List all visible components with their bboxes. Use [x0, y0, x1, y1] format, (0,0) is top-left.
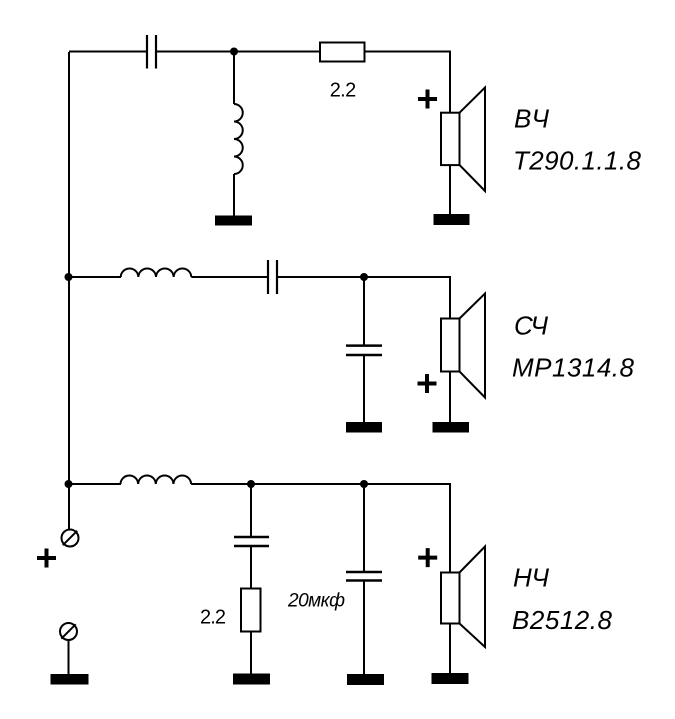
- wire C2 to node C: [278, 276, 364, 278]
- wire R1 to HF speaker: [365, 52, 451, 114]
- plus polarity mark at MF speaker: [418, 374, 437, 393]
- ground under LS2: [433, 422, 470, 433]
- wire node A to resistor R1: [234, 51, 320, 53]
- wire R2 to ground: [250, 632, 252, 675]
- resistor R1: [320, 43, 365, 62]
- wire X2 to ground: [68, 640, 70, 674]
- node F junction dot: [360, 480, 368, 488]
- node D junction dot on bus: [65, 480, 73, 488]
- wire C4 to resistor R2: [250, 547, 252, 589]
- speaker LS2 horn (MF): [460, 294, 486, 398]
- speaker LS1 body (HF): [441, 113, 460, 165]
- capacitor C4 (series with R2, LF shunt leg): [234, 537, 269, 546]
- ground under C5: [347, 674, 384, 685]
- wire node A down to inductor L1: [233, 52, 235, 105]
- capacitor C1 (series, HF): [147, 35, 156, 69]
- wire L2 to capacitor C2: [191, 276, 267, 278]
- speaker LS2 body (MF): [441, 319, 460, 372]
- wire LS2 to ground: [449, 372, 451, 423]
- wire L1 to ground: [233, 174, 235, 216]
- wire top row: corner to capacitor C1: [69, 51, 146, 53]
- wire node C down to capacitor C3: [363, 277, 365, 345]
- wire C5 to ground: [363, 582, 365, 675]
- wire middle row: bus to inductor L2: [69, 276, 121, 278]
- speaker LS3 horn (LF): [460, 547, 486, 648]
- wire LS1 to ground: [449, 165, 451, 215]
- node A junction dot: [230, 48, 238, 56]
- svg-text:2.2: 2.2: [330, 79, 357, 101]
- plus polarity mark at LF speaker: [418, 548, 437, 567]
- wire C3 to ground: [363, 356, 365, 423]
- svg-text:ВЧ: ВЧ: [514, 104, 549, 134]
- capacitor C3 (shunt, MF): [346, 346, 382, 355]
- inductor L3 (series, LF): [121, 475, 192, 484]
- plus polarity mark at input: [37, 549, 56, 568]
- capacitor C2 (series, MF): [268, 260, 277, 294]
- plus polarity mark at HF speaker: [418, 90, 437, 109]
- wire L3 to node E: [191, 483, 251, 485]
- speaker LS1 horn (HF): [460, 88, 486, 192]
- svg-text:2.2: 2.2: [200, 607, 226, 629]
- inductor L1 (vertical, HF shunt): [234, 104, 243, 174]
- input terminal X1: [62, 530, 79, 547]
- wire left input bus vertical: [68, 52, 70, 484]
- wire C1 to node A: [157, 51, 234, 53]
- speaker LS3 body (LF): [441, 573, 460, 624]
- node C junction dot: [360, 273, 368, 281]
- wire bus down to input terminal: [68, 484, 70, 530]
- svg-text:В2512.8: В2512.8: [512, 605, 613, 635]
- wire node E to node F: [251, 483, 364, 485]
- capacitor C5 (shunt 20uF, LF): [346, 572, 382, 581]
- wire node C to MF speaker: [364, 277, 450, 319]
- node B junction dot on bus: [65, 273, 73, 281]
- wire node F down to capacitor C5: [363, 484, 365, 571]
- inductor L2 (series, MF): [121, 268, 192, 277]
- resistor R2 (vertical): [241, 589, 261, 632]
- input terminal X2: [60, 623, 77, 640]
- svg-text:Т290.1.1.8: Т290.1.1.8: [513, 145, 642, 175]
- ground under C3: [346, 422, 382, 433]
- ground under LS1: [434, 214, 470, 225]
- wire LS3 to ground: [449, 624, 451, 674]
- svg-text:20мкф: 20мкф: [287, 591, 345, 612]
- wire bottom row: bus to inductor L3: [69, 483, 121, 485]
- svg-text:СЧ: СЧ: [514, 310, 548, 340]
- svg-text:МР1314.8: МР1314.8: [512, 353, 635, 383]
- ground under X2: [51, 674, 89, 685]
- node E junction dot: [247, 480, 255, 488]
- svg-text:НЧ: НЧ: [513, 563, 549, 593]
- wire node E down to capacitor C4: [250, 484, 252, 536]
- ground under LS3: [432, 673, 469, 684]
- wire node F to LF speaker: [364, 484, 450, 573]
- ground under L1: [215, 216, 252, 226]
- ground under R2: [233, 674, 270, 685]
